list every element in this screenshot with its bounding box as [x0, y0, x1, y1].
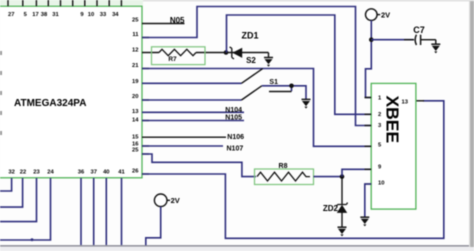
- svg-text:37: 37: [90, 170, 96, 176]
- svg-text:XBEE: XBEE: [383, 96, 403, 144]
- wire pin 36 down: [80, 178, 82, 245]
- zener diode ZD1: [230, 47, 242, 59]
- svg-text:ATMEGA324PA: ATMEGA324PA: [14, 98, 86, 109]
- svg-text:36: 36: [78, 170, 85, 176]
- wire pin 32 exit left: [0, 178, 12, 191]
- wire 2V bottom to border rail: [146, 207, 161, 246]
- IC right edge pin stubs: [142, 38, 149, 175]
- wire pin 22 exit left: [0, 178, 23, 207]
- wire net N104 from pin 13: [142, 111, 244, 113]
- svg-text:41: 41: [118, 170, 125, 176]
- wire net N105 from pin 14: [142, 120, 244, 122]
- wire junction to C7: [371, 39, 414, 41]
- XBEE pin13 stub: [416, 100, 424, 102]
- svg-text:25: 25: [132, 18, 139, 24]
- bottom pin numbers: [8, 170, 125, 176]
- bottom grey band: [0, 247, 474, 251]
- cropped left-edge pin marks: [0, 51, 2, 135]
- wire pin 26 to XBEE pin 13 (bottom rail): [142, 101, 444, 239]
- wire pin 41 down: [121, 178, 123, 245]
- svg-text:40: 40: [103, 170, 109, 176]
- ground (C7): [431, 40, 440, 54]
- wire net N05 from pin 25: [142, 23, 185, 25]
- wire junction down to ZD2: [341, 177, 343, 205]
- svg-text:ZD1: ZD1: [241, 31, 258, 41]
- svg-text:N107: N107: [227, 146, 244, 153]
- junction node 2V/C7: [369, 37, 374, 42]
- wire pin 12 row (through R7 and ZD1): [142, 52, 159, 54]
- svg-text:25: 25: [132, 148, 139, 154]
- capacitor C7: [404, 25, 425, 45]
- svg-text:10: 10: [378, 180, 384, 186]
- svg-text:13: 13: [132, 109, 139, 115]
- right grey window strip: [470, 0, 474, 247]
- resistor R7: [152, 47, 206, 65]
- junction node pin11/12 net: [224, 50, 229, 55]
- svg-text:23: 23: [33, 170, 40, 176]
- svg-text:R8: R8: [279, 163, 288, 170]
- wire pin 37 down: [93, 178, 95, 245]
- svg-text:20: 20: [132, 94, 138, 100]
- switch S1 lower contact bar: [269, 91, 292, 93]
- junction node R8 net: [340, 174, 345, 179]
- wire pin 21 to XBEE pin 5: [142, 69, 371, 147]
- wire pin 23 exit left: [0, 178, 37, 222]
- ground (ZD1 net): [264, 53, 273, 67]
- XBEE module U2: [371, 83, 416, 209]
- top pin stubs: [8, 0, 121, 6]
- IC U1 ATMEGA324PA body: [0, 0, 143, 178]
- wire pin 24 exit left: [0, 178, 51, 240]
- svg-text:21: 21: [132, 63, 139, 69]
- XBEE pin numbers: [378, 96, 409, 187]
- ground (S1 net): [302, 99, 311, 108]
- top pin numbers 27 5 17 38 31 9 10 33 34: [8, 12, 119, 18]
- wire pin 20: [142, 99, 242, 101]
- junction on pin24 wire: [31, 238, 34, 241]
- wire junction up and over to XBEE pin 2: [227, 15, 372, 114]
- svg-text:17: 17: [32, 12, 38, 18]
- wire XBEE pin 10 to ground: [365, 184, 371, 217]
- svg-text:N106: N106: [227, 134, 244, 141]
- svg-text:14: 14: [132, 118, 139, 124]
- svg-text:N105: N105: [225, 115, 242, 122]
- wire 2V top down to XBEE pin 1: [366, 20, 372, 97]
- svg-text:24: 24: [47, 170, 54, 176]
- power terminal 2V (top): [366, 9, 391, 21]
- junction node S1: [289, 84, 294, 89]
- svg-text:2V: 2V: [171, 196, 180, 205]
- wire pin 16: [142, 145, 223, 147]
- svg-text:N05: N05: [170, 16, 185, 25]
- switch S2 arm: [242, 69, 263, 84]
- zener diode ZD2: [337, 203, 348, 213]
- wire pin 25b to R8: [142, 154, 256, 177]
- wire net N106 from pin 15: [142, 136, 226, 138]
- wire junction to XBEE pin 9: [342, 169, 371, 176]
- resistor R8: [255, 163, 314, 185]
- wire pin 40 down: [105, 178, 107, 245]
- svg-text:10: 10: [88, 12, 94, 18]
- svg-text:33: 33: [100, 12, 107, 18]
- svg-text:19: 19: [132, 79, 139, 85]
- svg-text:11: 11: [132, 32, 139, 38]
- svg-text:38: 38: [41, 12, 48, 18]
- svg-text:26: 26: [132, 169, 139, 175]
- svg-text:C7: C7: [413, 25, 425, 35]
- svg-text:2: 2: [378, 112, 381, 118]
- svg-text:34: 34: [112, 12, 119, 18]
- svg-text:S2: S2: [246, 56, 256, 65]
- svg-text:R7: R7: [168, 56, 177, 63]
- wire ZD2 to ground: [341, 213, 343, 228]
- sheet border bottom line: [0, 245, 471, 247]
- svg-text:15: 15: [132, 135, 139, 141]
- svg-text:13: 13: [402, 99, 409, 105]
- XBEE pin stubs: [365, 98, 372, 185]
- right side pin numbers: [132, 18, 139, 175]
- svg-text:32: 32: [8, 170, 14, 176]
- svg-text:N104: N104: [225, 107, 242, 114]
- svg-text:16: 16: [132, 141, 139, 147]
- top thin grey edge: [143, 0, 474, 1]
- switch S1 arm: [242, 86, 262, 100]
- wire pin 11 to XBEE pin 3: [142, 7, 371, 126]
- svg-text:S1: S1: [269, 79, 278, 86]
- wire S1 output to ground: [262, 86, 306, 99]
- svg-text:ZD2: ZD2: [323, 204, 339, 213]
- svg-text:2V: 2V: [381, 10, 390, 19]
- svg-text:22: 22: [20, 170, 26, 176]
- svg-text:31: 31: [52, 12, 59, 18]
- ground (ZD2): [338, 227, 347, 236]
- wire pin 19: [142, 82, 242, 84]
- svg-text:12: 12: [132, 48, 138, 54]
- svg-text:27: 27: [8, 12, 14, 18]
- wire C7 to ground: [421, 39, 436, 41]
- wire R8 to junction: [314, 176, 343, 178]
- power terminal 2V (bottom): [154, 194, 179, 207]
- ground (XBEE pin 10): [360, 217, 369, 226]
